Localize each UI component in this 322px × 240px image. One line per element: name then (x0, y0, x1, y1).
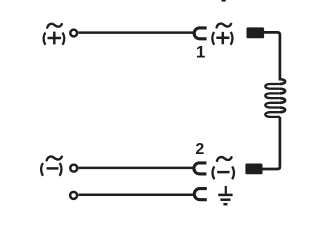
wire row3 (78, 194, 194, 197)
receptacle contact C row2 (194, 163, 206, 174)
label (~-) right: minus sign (217, 171, 229, 174)
label (~-) left: close paren (60, 163, 62, 176)
ground symbol: bar 3 (223, 203, 227, 206)
label (~-) right: close paren (232, 166, 234, 179)
svg-text:2: 2 (195, 141, 204, 158)
plug contact row1 (247, 27, 265, 38)
label (~+) left: tilde (47, 24, 62, 28)
plug contact row2 (245, 164, 262, 175)
ground symbol: bar 1 (218, 194, 232, 197)
label (~+) left: close paren (63, 33, 65, 45)
terminal circle row3 (70, 192, 77, 199)
label (~+) right: tilde (217, 24, 232, 28)
label (~+) right: open paren (212, 32, 214, 45)
wire row1 (78, 31, 194, 34)
receptacle contact C row1 (194, 28, 206, 39)
label (~-) left: open paren (41, 163, 43, 176)
label (~+) left: plus sign (48, 32, 62, 45)
label (~+) right: close paren (231, 32, 233, 45)
terminal circle row2 (70, 165, 77, 172)
wire row2 (79, 167, 194, 170)
ground symbol: stub (225, 186, 227, 194)
label (~-) left: tilde (47, 157, 62, 161)
wire from plug row1 to inductor, vertical runs and right cap turns of inductor L, wire to plug row2 (262, 32, 285, 169)
receptacle contact C row3 (194, 189, 207, 200)
top edge cropped glyph fragment (222, 0, 226, 2)
label (~-) right: open paren (213, 166, 215, 179)
label (~+) left: open paren (44, 33, 46, 45)
ground symbol: bar 2 (220, 198, 230, 201)
label (~-) left: minus sign (47, 167, 59, 170)
svg-text:1: 1 (196, 42, 205, 61)
terminal circle row1 (70, 30, 77, 37)
label (~-) right: tilde (217, 157, 232, 161)
label (~+) right: plus sign (216, 32, 229, 44)
inductor L left loops (265, 84, 280, 117)
